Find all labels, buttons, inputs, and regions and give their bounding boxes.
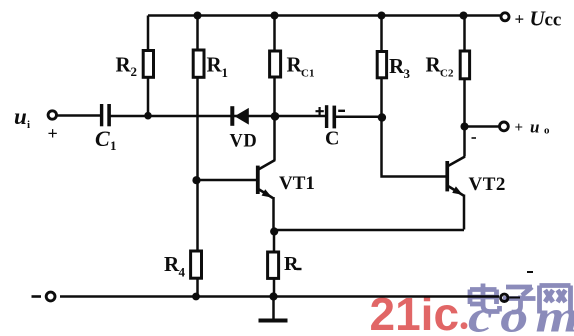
- svg-text:R: R: [284, 253, 299, 275]
- svg-text:C: C: [95, 126, 110, 151]
- svg-text:C2: C2: [440, 68, 454, 80]
- svg-text:R: R: [116, 53, 132, 77]
- svg-text:u: u: [530, 118, 539, 137]
- svg-text:+: +: [515, 120, 524, 136]
- svg-text:VT1: VT1: [279, 173, 315, 194]
- svg-text:2: 2: [131, 64, 138, 79]
- svg-text:C: C: [325, 128, 339, 150]
- svg-text:R: R: [207, 53, 223, 77]
- svg-text:VT2: VT2: [469, 174, 506, 195]
- svg-text:1: 1: [110, 138, 117, 153]
- svg-text:com: com: [468, 292, 574, 336]
- svg-text:4: 4: [179, 265, 186, 280]
- svg-text:u: u: [14, 104, 27, 129]
- svg-text:i: i: [27, 119, 30, 131]
- svg-text:+: +: [515, 10, 525, 29]
- svg-text:1: 1: [222, 65, 229, 80]
- svg-text:+: +: [48, 124, 58, 144]
- svg-text:21ic: 21ic: [370, 288, 460, 336]
- svg-text:VD: VD: [230, 132, 258, 152]
- svg-text:3: 3: [404, 66, 411, 81]
- svg-text:cc: cc: [545, 10, 562, 31]
- svg-text:C1: C1: [301, 68, 314, 80]
- svg-text:o: o: [544, 125, 550, 137]
